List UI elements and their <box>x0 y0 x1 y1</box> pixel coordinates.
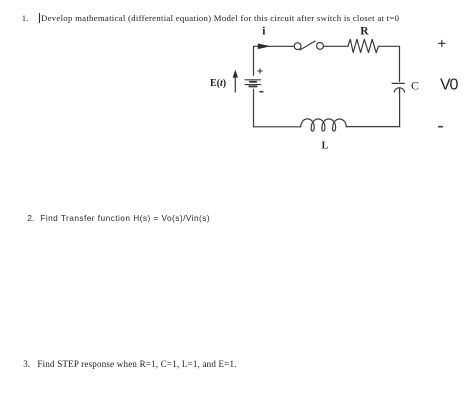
battery E long plate 3 <box>245 84 260 86</box>
output minus terminal <box>439 126 443 128</box>
text cursor <box>39 13 40 24</box>
item 2 text <box>40 214 210 222</box>
svg-text:L: L <box>322 141 329 152</box>
item 2 number <box>27 214 34 222</box>
switch SW lever <box>300 41 315 50</box>
svg-text:V0: V0 <box>440 77 458 94</box>
svg-text:E(t): E(t) <box>210 78 226 89</box>
resistor R <box>348 39 379 52</box>
battery minus sign <box>260 91 263 93</box>
item 1 number <box>22 14 29 23</box>
wire top-left to switch <box>254 45 295 47</box>
wire resistor to top-right corner <box>379 45 400 47</box>
capacitor C top plate <box>392 82 404 84</box>
wire switch to resistor <box>323 45 348 47</box>
svg-text:R: R <box>360 25 369 37</box>
wire left side bottom up to battery <box>253 90 255 127</box>
inductor L <box>301 119 347 131</box>
wire inductor to bottom-left corner <box>254 126 301 128</box>
current arrow i <box>258 44 271 50</box>
wire bottom-right to inductor <box>346 126 399 128</box>
item 3 number <box>23 360 30 369</box>
svg-text:i: i <box>262 26 266 38</box>
switch SW contact circle right <box>317 43 324 50</box>
item 3 text <box>37 360 236 369</box>
item 1 text <box>41 14 399 23</box>
wire right side down to capacitor <box>399 46 401 81</box>
battery plus sign <box>258 69 263 73</box>
source arrow (E(t) direction) <box>234 78 236 93</box>
battery E short plate 4 <box>249 85 256 87</box>
battery E short plate 2 <box>250 81 256 83</box>
capacitor C curved plate <box>394 88 404 92</box>
output plus terminal <box>439 40 445 46</box>
wire capacitor to bottom-right corner <box>399 88 401 127</box>
svg-text:C: C <box>411 78 419 92</box>
wire battery up to top-left corner <box>253 46 255 75</box>
switch SW contact circle left <box>294 43 301 50</box>
battery E long plate 1 <box>245 79 261 81</box>
